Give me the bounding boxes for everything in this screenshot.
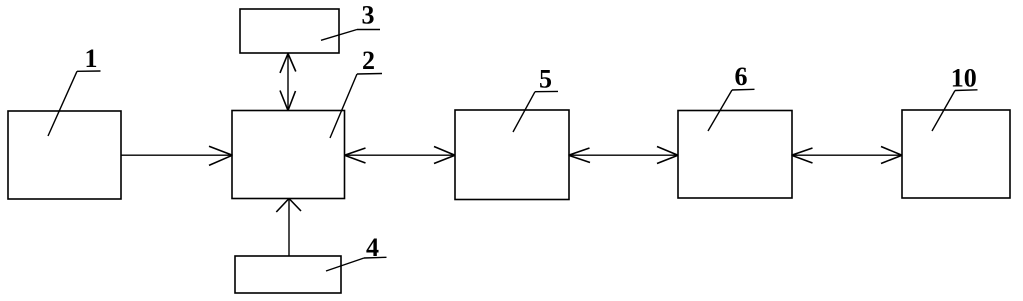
svg-text:5: 5 [539,64,552,93]
label 6 [708,62,755,131]
block 10 [902,110,1010,198]
svg-text:2: 2 [362,46,375,75]
wire 2 to 3 (double arrow vertical) [280,54,296,111]
svg-text:6: 6 [735,62,748,91]
label 1 [48,44,101,136]
label 5 [513,64,558,132]
wire 1 to 2 (arrow right) [121,146,233,165]
label 3 [321,0,380,40]
block 6 [678,111,792,199]
block 2 [232,111,345,199]
svg-text:1: 1 [85,44,98,73]
svg-text:3: 3 [362,0,375,29]
svg-text:10: 10 [951,64,977,93]
label 4 [326,233,387,271]
block 3 [240,9,339,53]
block 1 [8,111,121,199]
wire 6 to 10 (double arrow) [792,147,903,164]
block 4 [235,256,341,293]
block 5 [455,110,569,200]
wire 4 to 2 (arrow up) [276,199,301,257]
label 10 [932,64,978,131]
label 2 [330,46,382,138]
wire 2 to 5 (double arrow) [345,147,456,164]
wire 5 to 6 (double arrow) [569,147,679,164]
